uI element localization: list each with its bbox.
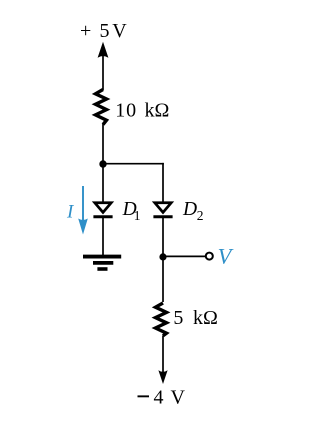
wire node B to output terminal <box>163 255 205 257</box>
wire R2 to bottom arrow <box>162 336 164 373</box>
wire D2 to node B and to R2 <box>162 218 164 303</box>
wire R1 to node A and to D1 <box>102 124 104 203</box>
resistor R2 5k zigzag <box>156 303 167 336</box>
R1 value label 10 kΩ <box>115 100 169 122</box>
svg-text:V: V <box>171 387 186 409</box>
resistor R1 10k zigzag <box>96 90 107 125</box>
power label +5V <box>80 20 127 42</box>
wire supply to R1 <box>102 53 104 90</box>
diode D2 <box>153 203 172 217</box>
power label -4V <box>138 387 186 409</box>
wire D1 to ground <box>102 218 104 258</box>
svg-text:V: V <box>218 244 234 269</box>
current arrow I (blue) <box>78 186 88 235</box>
svg-text:kΩ: kΩ <box>145 100 170 122</box>
svg-text:4: 4 <box>154 387 164 409</box>
supply arrow up <box>98 42 109 58</box>
wire right branch down to D2 <box>162 163 164 203</box>
svg-text:I: I <box>66 202 75 223</box>
svg-text:10: 10 <box>115 100 137 122</box>
node B junction dot <box>159 253 166 260</box>
svg-text:D: D <box>182 199 197 220</box>
output terminal circle <box>206 253 213 260</box>
R2 value label 5 kΩ <box>173 307 217 329</box>
label D1 <box>122 199 141 223</box>
label D2 <box>182 199 204 223</box>
svg-text:V: V <box>112 20 127 42</box>
bottom arrow down <box>158 370 167 384</box>
svg-text:1: 1 <box>134 208 141 223</box>
ground <box>83 257 121 269</box>
diode D1 <box>93 203 112 217</box>
svg-text:5: 5 <box>100 20 110 42</box>
node A junction dot <box>99 160 106 167</box>
svg-text:kΩ: kΩ <box>193 307 218 329</box>
svg-text:+: + <box>80 20 91 42</box>
svg-text:2: 2 <box>197 208 204 223</box>
wire node A to right branch <box>103 163 164 165</box>
svg-text:5: 5 <box>173 307 183 329</box>
